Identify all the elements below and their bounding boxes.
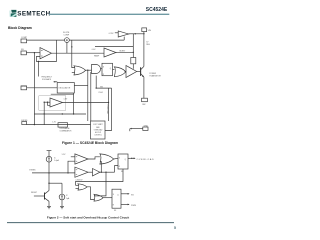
wire summer to ilim comparator — [69, 37, 124, 41]
latch U1 — [102, 63, 113, 76]
wire orC to FF2 — [103, 197, 112, 199]
node clamp input junctions — [44, 102, 49, 103]
svg-text:OSCILLATOR: OSCILLATOR — [58, 87, 70, 90]
pin ROSC — [21, 86, 27, 90]
svg-text:0.78V: 0.78V — [109, 33, 114, 35]
wire EN/SS lead — [34, 113, 86, 115]
resistor R discharge — [52, 121, 72, 132]
resistor RSENSE — [131, 58, 136, 64]
wire emitter to SW pin — [143, 77, 145, 98]
PWM comparator — [104, 48, 116, 57]
wire VIN rail vertical — [143, 32, 145, 67]
semtech logo mark — [9, 10, 16, 17]
node sense junction — [133, 52, 134, 53]
slope comp summer — [63, 32, 70, 42]
comparator B — [75, 167, 88, 182]
wire summer to EA output line — [66, 43, 68, 54]
wire overload net — [96, 76, 112, 121]
label 1.2V — [62, 154, 75, 157]
semtech logo text — [17, 10, 50, 17]
svg-text:RESET: RESET — [31, 192, 38, 194]
wire FB net down — [33, 53, 35, 125]
wire buffer output — [100, 171, 115, 173]
wire FB to EA input — [27, 52, 41, 54]
wire bottom rail — [27, 124, 91, 125]
svg-text:SW: SW — [142, 104, 145, 106]
wire ROSC to oscillator — [27, 87, 57, 89]
wire gnd lead — [130, 128, 143, 131]
section heading — [8, 26, 32, 30]
part number SC4524E — [146, 7, 168, 13]
node buffer output junctions — [101, 172, 107, 173]
svg-text:EN/SS: EN/SS — [30, 169, 37, 171]
svg-text:TRANSISTOR: TRANSISTOR — [149, 75, 161, 78]
svg-text:SC4524E: SC4524E — [146, 7, 168, 13]
node VIN rail junction — [143, 33, 144, 34]
svg-text:Block Diagram: Block Diagram — [8, 26, 32, 30]
node FB junction — [34, 52, 35, 53]
label 5V REG — [146, 42, 150, 47]
label power transistor — [149, 73, 161, 78]
supply tick — [47, 151, 52, 157]
node G1 output junction — [87, 70, 88, 71]
wire ilim output to VIN rail — [129, 33, 144, 34]
wire SS output — [121, 193, 134, 196]
ground I2 — [60, 206, 64, 208]
svg-text:OVERLOAD: OVERLOAD — [137, 158, 155, 161]
wire COMP to EA output — [27, 40, 65, 61]
or gate B — [76, 184, 88, 190]
wire clamp output — [51, 93, 109, 115]
svg-text:Figure 2 — Soft start and Over: Figure 2 — Soft start and Overload Hiccu… — [47, 216, 129, 220]
wire to comparator A input — [68, 161, 75, 173]
ss clamp amplifier — [39, 96, 68, 110]
pin SW — [142, 98, 148, 106]
node overload junction — [108, 102, 109, 103]
wire FF1 to orB — [76, 169, 124, 185]
wire latch to gate G3 — [113, 69, 115, 71]
svg-text:BURST: BURST — [120, 51, 126, 53]
wire emitter to ground — [48, 201, 50, 206]
pin GND — [143, 126, 149, 131]
wire EN/SS vertical — [43, 102, 45, 124]
wire orB to orC — [87, 187, 94, 200]
flip-flop FF1 — [118, 154, 128, 173]
or gate C — [94, 194, 103, 201]
wire I2 to ground — [61, 200, 63, 207]
wire compA to orA — [88, 157, 100, 159]
svg-text:UVLO: UVLO — [99, 92, 104, 94]
transistor Q2 — [31, 191, 49, 202]
node EN/SS junction — [44, 113, 64, 114]
svg-text:I1: I1 — [54, 157, 56, 159]
wire G3 to driver — [125, 71, 127, 73]
wire oscillator clk out — [74, 85, 88, 87]
wire I1 to EN/SS rail — [48, 162, 50, 173]
header rule — [49, 13, 169, 15]
caption figure 1 — [62, 141, 118, 145]
svg-text:VIN: VIN — [148, 30, 152, 32]
wire AND to latch — [101, 68, 103, 70]
page number — [174, 226, 176, 230]
transistor Q1 power — [137, 66, 144, 77]
pin COMP — [21, 37, 28, 43]
wire EA ref input down to foldback — [38, 61, 39, 77]
current source I1 — [46, 156, 59, 162]
wire orA to FF1 — [114, 157, 118, 160]
svg-text:RAMP: RAMP — [94, 54, 100, 57]
svg-text:OVERLOAD: OVERLOAD — [106, 105, 109, 115]
node hiccup node — [48, 183, 49, 184]
svg-text:1.4µA: 1.4µA — [54, 159, 60, 162]
current limit comparator — [109, 31, 129, 37]
buffer U3 — [88, 169, 100, 176]
wire G1 to AND gate — [86, 69, 92, 71]
wire EN/SS to clamp input — [44, 102, 50, 105]
or gate G1 — [74, 66, 86, 75]
driver U2 — [126, 66, 137, 78]
soft start block — [91, 121, 106, 139]
svg-text:FOLDBACK: FOLDBACK — [42, 78, 52, 81]
ground Q2 — [47, 206, 51, 208]
or gate A — [100, 154, 114, 164]
wire FF1 R input — [115, 166, 119, 173]
oscillator block — [57, 83, 74, 94]
svg-text:HICCUP: HICCUP — [95, 132, 101, 134]
node EN/SS junctions — [48, 172, 68, 173]
wire hiccup return — [105, 88, 112, 130]
svg-text:COMPARATOR: COMPARATOR — [60, 129, 73, 132]
caption figure 2 — [47, 216, 129, 220]
svg-text:PWM: PWM — [131, 205, 136, 207]
wire PWM output — [121, 204, 136, 207]
current source I2 — [59, 194, 70, 200]
wire EA output to PWM comparator — [52, 52, 105, 54]
frequency foldback block — [42, 76, 58, 82]
label ramp/0.6V — [92, 49, 100, 57]
or gate G3 — [114, 67, 126, 77]
wire collector up — [48, 173, 50, 191]
error amplifier EA — [40, 48, 52, 59]
pin EN/SS — [21, 120, 28, 125]
flip-flop FF2 — [112, 189, 121, 212]
svg-text:COMP: COMP — [64, 35, 70, 37]
wire blanking net down — [90, 72, 92, 121]
svg-text:I2: I2 — [66, 195, 68, 197]
wire PWM output to sense resistor — [95, 34, 133, 58]
svg-text:Figure 1 — SC4524E Block Diagr: Figure 1 — SC4524E Block Diagram — [62, 141, 118, 145]
wire overload output — [128, 158, 154, 161]
wire sense resistor to driver — [132, 64, 134, 69]
wire slope net to gate G1 — [72, 40, 75, 73]
wire clk net down — [87, 70, 89, 121]
pin VIN — [142, 28, 152, 32]
footer rule — [7, 222, 174, 224]
svg-text:5: 5 — [174, 226, 176, 230]
wire ss net down — [94, 172, 106, 196]
svg-text:CONTROL: CONTROL — [94, 135, 102, 137]
comparator A — [75, 154, 88, 164]
svg-text:SEMTECH: SEMTECH — [17, 10, 50, 17]
and gate G2 — [92, 65, 101, 74]
wire hiccup to I2 — [49, 183, 62, 194]
label vin uvlo — [99, 86, 104, 94]
node summer junction — [71, 46, 72, 47]
wire to orA lower input — [100, 162, 101, 173]
pin FB — [21, 49, 26, 55]
pin EN/SS input — [30, 169, 75, 173]
